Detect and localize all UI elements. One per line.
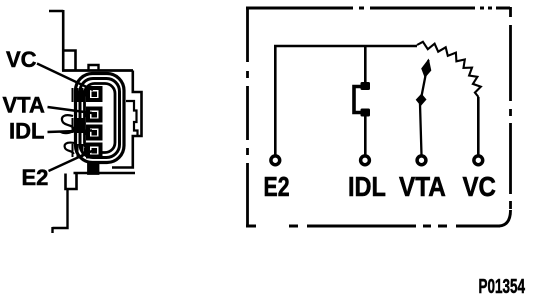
svg-text:VTA: VTA: [3, 93, 45, 118]
svg-text:VTA: VTA: [399, 170, 446, 202]
svg-text:E2: E2: [264, 171, 290, 203]
svg-text:IDL: IDL: [348, 172, 386, 202]
svg-text:VC: VC: [463, 170, 497, 202]
svg-text:E2: E2: [22, 165, 49, 190]
svg-text:VC: VC: [6, 47, 37, 72]
svg-text:P01354: P01354: [479, 275, 526, 297]
svg-text:IDL: IDL: [9, 119, 44, 144]
